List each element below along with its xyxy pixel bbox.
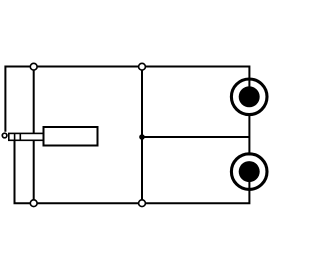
node B1 (open terminal on bottom wire): [30, 200, 37, 207]
plug P1 ring separator 1: [14, 133, 16, 140]
wire: top net (tip riser, top horizontal run, drop into J1 center pin): [5, 67, 249, 132]
wire: shield link between J1 and J2 outer rings: [248, 114, 250, 156]
node A1 (open terminal on top wire): [30, 63, 37, 70]
wire: node column 1 lower segment (plug sleeve down to bottom node): [33, 140, 35, 201]
RCA jack J2 (bottom, front view) outer shield ring: [231, 154, 267, 190]
junction (solder dot on middle net): [139, 134, 145, 140]
wire: node column 2 vertical (top node through junction to bottom node): [141, 68, 143, 201]
wire: node column 1 upper segment (top node down to plug sleeve): [33, 68, 35, 134]
RCA jack J1 (top, front view) outer shield ring: [231, 79, 267, 115]
wire: bottom net (ring drop, bottom horizontal run, rise into J2 center pin): [15, 140, 250, 203]
RCA jack J1 center pin: [239, 86, 260, 107]
plug P1 body (handle): [44, 127, 98, 146]
plug P1 ring separator 2: [19, 133, 21, 140]
plug P1 shaft (tip/ring/sleeve barrel): [9, 133, 44, 140]
plug P1 tip: [2, 133, 7, 138]
wire: middle horizontal run (junction to RCA shield link): [142, 136, 249, 138]
RCA jack J2 center pin: [239, 161, 260, 182]
node A2 (open terminal on top wire): [139, 63, 146, 70]
node B2 (open terminal on bottom wire): [139, 200, 146, 207]
